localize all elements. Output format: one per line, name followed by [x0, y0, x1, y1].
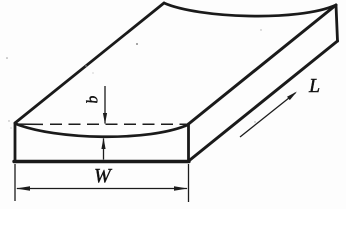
- slab back-right vertical edge: [336, 5, 338, 41]
- slab left top edge (front-left to back-left): [15, 3, 164, 123]
- left extension line below slab: [14, 164, 16, 201]
- dimension b upper arrowhead (points down to dashed line): [103, 113, 107, 124]
- svg-text:b: b: [84, 95, 102, 104]
- slab front bottom edge: [14, 160, 189, 163]
- dimension L arrow line: [240, 93, 296, 137]
- slab bottom-right edge (back to front): [188, 41, 338, 162]
- dimension b upper leader line: [104, 86, 106, 124]
- slab front-right vertical edge: [187, 124, 190, 162]
- slab front-left vertical edge: [14, 123, 17, 162]
- dimension W right arrowhead: [174, 186, 188, 190]
- dimension W left arrowhead: [16, 186, 30, 190]
- dimension L arrowhead (points up-right): [287, 92, 297, 101]
- slab back top sagging curve: [164, 3, 336, 16]
- dashed chord stub at left corner: [17, 123, 44, 125]
- dashed chord line across front face: [50, 123, 188, 125]
- right extension line below slab: [188, 164, 190, 202]
- slab front top sagging curve: [15, 124, 189, 137]
- slab right top edge (front-right to back-right): [189, 5, 337, 124]
- dimension b lower leader line: [103, 139, 105, 160]
- dimension W line: [17, 188, 187, 190]
- dimension b lower arrowhead (points up to curve): [101, 138, 105, 150]
- svg-text:W: W: [94, 165, 113, 187]
- svg-text:L: L: [308, 75, 320, 97]
